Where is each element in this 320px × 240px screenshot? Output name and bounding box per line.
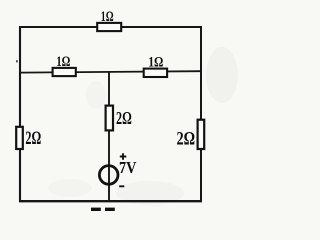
resistor R4 2ohm (left branch) — [16, 127, 41, 149]
resistor R2 1ohm (middle row left) — [53, 54, 76, 76]
svg-text:2Ω: 2Ω — [25, 128, 41, 149]
resistor R5 2ohm (middle branch) — [106, 106, 132, 131]
voltage source V1 7V — [99, 153, 137, 186]
scan background — [0, 0, 241, 211]
resistor R3 1ohm (middle row right) — [144, 55, 167, 77]
resistor R6 2ohm (right branch) — [177, 120, 205, 150]
wire top — [20, 26, 201, 28]
svg-text:1Ω: 1Ω — [56, 54, 70, 70]
wire right — [200, 26, 202, 202]
wire left — [19, 26, 21, 202]
cut-off caption marks below bottom wire — [91, 208, 115, 211]
svg-text:2Ω: 2Ω — [116, 108, 132, 128]
resistor R1 1ohm (top) — [97, 9, 121, 31]
wire middle row — [20, 71, 201, 72]
svg-text:7V: 7V — [119, 158, 137, 177]
svg-text:1Ω: 1Ω — [101, 9, 114, 25]
svg-text:1Ω: 1Ω — [148, 55, 163, 71]
wire middle branch — [108, 72, 110, 201]
svg-text:2Ω: 2Ω — [177, 130, 196, 150]
wire bottom — [19, 200, 202, 202]
